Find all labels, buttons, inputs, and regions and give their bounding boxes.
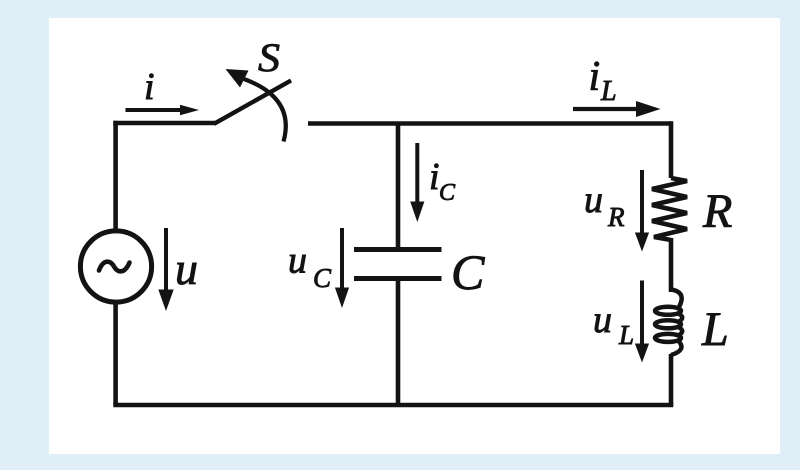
AC source tilde	[99, 262, 130, 272]
svg-text:i: i	[144, 66, 155, 108]
wire capacitor branch upper	[396, 124, 401, 251]
voltage arrow uC	[335, 228, 349, 308]
svg-text:C: C	[439, 180, 456, 206]
label L	[701, 303, 729, 356]
current arrow iC	[410, 143, 424, 222]
svg-text:R: R	[607, 202, 625, 232]
current arrow iL	[573, 101, 661, 117]
svg-text:C: C	[313, 263, 332, 293]
label i	[144, 66, 155, 108]
wire left vertical lower	[113, 302, 118, 406]
label uL	[593, 299, 634, 350]
svg-text:i: i	[589, 54, 601, 100]
svg-text:C: C	[451, 244, 485, 300]
resistor R zigzag	[652, 178, 687, 240]
svg-text:u: u	[593, 299, 612, 341]
wire right vertical upper	[669, 121, 674, 178]
switch S arc arrowhead	[226, 69, 249, 88]
AC source circle	[80, 231, 151, 302]
inductor L coil	[655, 290, 682, 356]
label uR	[584, 179, 625, 232]
wire capacitor branch lower	[396, 279, 401, 405]
svg-text:u: u	[288, 240, 307, 282]
wire right vertical middle	[669, 238, 674, 292]
wire bottom horizontal	[113, 403, 673, 408]
current arrow i	[126, 105, 200, 116]
label uC	[288, 240, 332, 294]
wire right vertical lower	[669, 354, 674, 405]
svg-text:L: L	[701, 303, 729, 356]
switch S lever	[214, 81, 291, 124]
label iC	[429, 156, 456, 206]
svg-text:R: R	[702, 185, 732, 238]
label C	[451, 244, 485, 300]
label iL	[589, 54, 617, 107]
label u	[175, 243, 198, 294]
voltage arrow uL	[635, 281, 649, 363]
svg-text:u: u	[175, 243, 198, 294]
capacitor C bottom plate	[354, 276, 442, 281]
label R	[702, 185, 732, 238]
voltage arrow uR	[635, 170, 649, 252]
svg-text:S: S	[258, 35, 280, 80]
svg-text:u: u	[584, 179, 603, 221]
svg-text:i: i	[429, 156, 440, 198]
wire left vertical upper	[113, 121, 118, 231]
svg-text:L: L	[618, 320, 634, 350]
svg-text:L: L	[600, 76, 617, 107]
capacitor C top plate	[354, 247, 442, 252]
switch S arc	[244, 79, 286, 142]
label S	[258, 35, 280, 80]
voltage arrow u	[158, 228, 173, 311]
wire top-right horizontal	[308, 121, 671, 126]
wire top-left horizontal	[113, 121, 215, 126]
